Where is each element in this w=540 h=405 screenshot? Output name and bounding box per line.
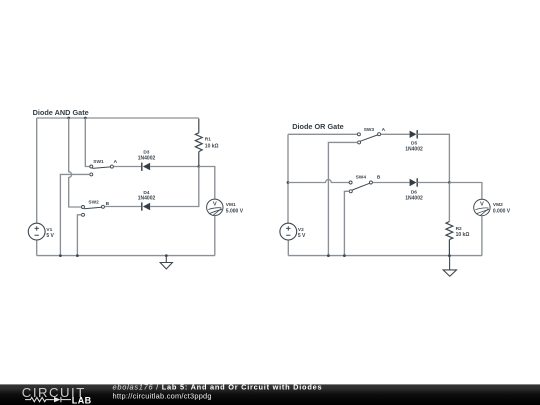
resistor R1: [195, 119, 218, 167]
svg-text:http://circuitlab.com/ct3ppdg: http://circuitlab.com/ct3ppdg: [113, 392, 212, 401]
svg-text:0.000 V: 0.000 V: [493, 208, 511, 214]
wire top rail: [37, 117, 199, 119]
wire V1 bottom: [36, 240, 38, 256]
wire mid rail with hop over SW3 throw wire: [288, 180, 349, 183]
node junction output (R1/D3/D4/VM1): [197, 165, 200, 168]
diode D4 1N4002: [138, 190, 156, 211]
wire SW1 feed from top rail: [85, 118, 90, 167]
wire bottom rail (OR): [288, 255, 482, 257]
svg-text:A: A: [114, 159, 118, 165]
wire D4 up to output node: [150, 167, 199, 207]
svg-text:5 V: 5 V: [46, 233, 54, 239]
svg-text:SW3: SW3: [364, 127, 375, 133]
wire VM1 bottom: [214, 216, 216, 256]
wire D3 to output node: [150, 166, 199, 168]
voltage source V2: [280, 223, 306, 240]
node junction OR output (D5/D6/R2/VM2): [448, 181, 451, 184]
svg-text:R1: R1: [205, 136, 211, 142]
node junction ground tap: [165, 254, 168, 257]
node junction SW2 throw wire / bottom rail: [76, 254, 79, 257]
svg-text:Diode OR Gate: Diode OR Gate: [292, 122, 344, 131]
switch SW1: [90, 159, 114, 176]
svg-text:LAB: LAB: [72, 395, 92, 405]
logo wire squiggle with resistor and diode: [25, 397, 71, 402]
svg-text:VM1: VM1: [226, 202, 236, 208]
svg-text:VM2: VM2: [493, 202, 503, 208]
wire left vertical (V1 top): [36, 118, 38, 223]
svg-text:V: V: [213, 201, 217, 207]
svg-text:V: V: [480, 202, 484, 208]
node junction SW4 throw wire / bottom rail: [343, 254, 346, 257]
voltmeter VM2: [474, 199, 511, 216]
wire SW3 bottom throw to ground rail: [328, 142, 357, 255]
resistor R2: [446, 183, 469, 256]
wire SW2 feed from top rail with hop: [69, 118, 82, 207]
wire SW2 bottom throw to ground rail: [77, 215, 81, 256]
wire SW1 bottom throw to ground rail: [60, 174, 89, 255]
wire output node to VM1: [199, 167, 215, 200]
svg-text:5.000 V: 5.000 V: [226, 209, 244, 215]
wire node B to D6: [373, 182, 410, 184]
svg-text:ebolas176 / Lab 5: And and Or: ebolas176 / Lab 5: And and Or Circuit wi…: [113, 382, 323, 391]
svg-text:1N4002: 1N4002: [405, 146, 423, 152]
node junction SW3 throw wire / bottom rail: [327, 254, 330, 257]
ground (AND circuit): [160, 256, 172, 269]
svg-text:10 kΩ: 10 kΩ: [205, 144, 219, 150]
node junction top rail to SW2 feed: [67, 117, 70, 120]
wire node B to D4: [105, 206, 141, 208]
svg-text:1N4002: 1N4002: [138, 156, 156, 162]
voltmeter VM1: [207, 199, 244, 216]
wire top rail (OR): [288, 133, 357, 135]
node junction R2 / bottom rail / ground: [448, 254, 451, 257]
svg-text:1N4002: 1N4002: [405, 195, 423, 201]
svg-text:SW4: SW4: [356, 174, 367, 180]
diode D5 1N4002: [405, 130, 423, 152]
svg-text:10 kΩ: 10 kΩ: [456, 232, 470, 238]
wire D6 to OR output node: [417, 182, 449, 184]
switch SW4: [349, 174, 372, 193]
node junction top rail to SW1 feed: [84, 117, 87, 120]
svg-text:1N4002: 1N4002: [138, 195, 156, 201]
wire V2 bottom: [287, 240, 289, 256]
wire node A to D5: [381, 133, 410, 135]
switch SW3: [357, 127, 380, 144]
diode D6 1N4002: [405, 178, 423, 201]
wire OR output to VM2: [449, 183, 482, 200]
node junction SW1 throw wire / bottom rail: [59, 254, 62, 257]
wire bottom rail: [37, 255, 215, 257]
wire node A to D3: [114, 166, 141, 168]
wire D5 to OR output node: [417, 134, 449, 182]
wire VM2 bottom: [481, 216, 483, 256]
diode D3 1N4002: [138, 150, 156, 171]
ground (OR circuit): [443, 256, 456, 277]
wire left vertical (V2 top): [287, 134, 289, 223]
svg-text:B: B: [377, 174, 381, 180]
node junction left vertical / mid rail: [287, 181, 290, 184]
footer black bar: [0, 384, 540, 405]
svg-text:5 V: 5 V: [298, 233, 306, 239]
svg-text:A: A: [382, 127, 386, 133]
wire SW4 bottom throw to ground rail: [344, 191, 349, 255]
switch SW2: [82, 199, 105, 216]
svg-text:Diode AND Gate: Diode AND Gate: [33, 108, 89, 117]
svg-text:SW1: SW1: [93, 159, 104, 165]
svg-text:SW2: SW2: [88, 199, 99, 205]
voltage source V1: [28, 223, 54, 240]
